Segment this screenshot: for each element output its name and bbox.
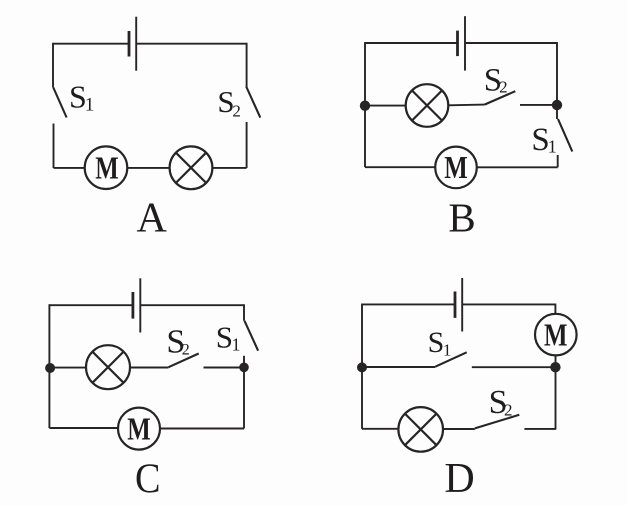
battery BT-B short plate bbox=[456, 31, 459, 56]
wire D top-right bbox=[462, 303, 555, 305]
motor M4 letter bbox=[544, 316, 568, 352]
svg-text:A: A bbox=[137, 195, 168, 241]
wire C top-left bbox=[49, 304, 132, 306]
battery BT-D long plate bbox=[461, 278, 463, 332]
switch S2 fixed contact (circuit D) bbox=[524, 428, 556, 430]
svg-text:B: B bbox=[448, 195, 475, 241]
label B bbox=[448, 195, 475, 241]
label S2 (circuit D) bbox=[489, 384, 513, 421]
wire B right vertical bbox=[556, 42, 558, 119]
svg-text:2: 2 bbox=[232, 101, 241, 120]
label D bbox=[444, 456, 474, 502]
switch S2 fixed contact (circuit C) bbox=[204, 367, 245, 369]
battery BT-A long plate bbox=[135, 17, 137, 71]
switch S1 blade (circuit B) bbox=[558, 119, 572, 152]
svg-text:M: M bbox=[544, 316, 568, 352]
wire A left lower vertical bbox=[53, 124, 55, 169]
wire C bottom-left bbox=[49, 427, 118, 429]
svg-text:1: 1 bbox=[443, 340, 452, 359]
wire A between motor and lamp bbox=[127, 167, 170, 169]
lamp L3 cross stroke 2 bbox=[92, 352, 123, 383]
wire B top-left bbox=[365, 42, 458, 44]
battery BT-C short plate bbox=[131, 292, 134, 319]
wire B left vertical bbox=[364, 42, 366, 167]
svg-text:C: C bbox=[135, 457, 161, 503]
svg-text:2: 2 bbox=[182, 341, 190, 358]
lamp L2 circle (circuit B) bbox=[406, 84, 449, 127]
svg-text:M: M bbox=[127, 410, 151, 446]
switch S1 blade (circuit C) bbox=[245, 321, 259, 351]
svg-text:M: M bbox=[444, 149, 468, 185]
wire C top-right bbox=[140, 304, 244, 306]
switch S2 fixed contact (circuit B) bbox=[520, 104, 557, 106]
lamp L4 cross stroke 1 bbox=[405, 414, 437, 446]
wire D top-left bbox=[362, 303, 455, 305]
wire C bottom-right bbox=[160, 428, 244, 430]
motor M3 circle (circuit C) bbox=[118, 408, 160, 450]
lamp L2 cross stroke 2 bbox=[412, 90, 442, 120]
battery BT-D short plate bbox=[454, 292, 457, 318]
junction dot C right bbox=[239, 363, 249, 373]
wire A bottom-left bbox=[54, 167, 85, 169]
wire A top-left bbox=[53, 43, 129, 45]
label S1 (circuit C) bbox=[216, 319, 241, 354]
switch S1 fixed contact stub (circuit C) bbox=[243, 356, 245, 364]
svg-text:2: 2 bbox=[499, 77, 508, 96]
svg-text:1: 1 bbox=[232, 335, 241, 355]
wire B bottom-right bbox=[477, 166, 558, 168]
label S2 (circuit B) bbox=[484, 62, 508, 98]
wire C right lower vertical bbox=[243, 367, 245, 428]
wire B bottom-left bbox=[365, 166, 435, 168]
battery BT-A short plate bbox=[128, 31, 131, 57]
label A bbox=[137, 195, 168, 241]
lamp L3 cross stroke 1 bbox=[92, 352, 123, 383]
svg-text:1: 1 bbox=[85, 95, 95, 116]
motor M1 circle (circuit A) bbox=[85, 146, 128, 189]
lamp L1 cross stroke 2 bbox=[176, 153, 206, 183]
switch S2 blade (circuit B) bbox=[485, 91, 516, 104]
switch S2 blade (circuit C) bbox=[169, 354, 199, 368]
svg-text:M: M bbox=[95, 150, 119, 186]
wire D bottom-left bbox=[362, 428, 398, 430]
junction dot B right bbox=[552, 100, 562, 110]
wire D middle to switch pivot bbox=[362, 366, 435, 368]
wire D right vertical below motor bbox=[555, 355, 557, 429]
junction dot D left bbox=[357, 362, 367, 372]
switch S2 blade (circuit D) bbox=[475, 415, 520, 429]
svg-text:1: 1 bbox=[548, 136, 557, 156]
motor M2 letter bbox=[444, 149, 468, 185]
switch S1 fixed contact (circuit D) bbox=[472, 366, 556, 368]
motor M3 letter bbox=[127, 410, 151, 446]
lamp L4 cross stroke 2 bbox=[405, 414, 437, 446]
label S2 (circuit C) bbox=[166, 323, 189, 360]
wire C middle-left bbox=[50, 367, 86, 369]
wire B top-right bbox=[465, 42, 557, 44]
junction dot D right bbox=[550, 362, 560, 372]
svg-text:S: S bbox=[428, 326, 445, 359]
lamp L2 cross stroke 1 bbox=[412, 90, 442, 120]
wire A bottom-right bbox=[212, 167, 246, 169]
wire C left vertical bbox=[48, 304, 50, 428]
svg-text:2: 2 bbox=[504, 400, 513, 419]
wire A left vertical bbox=[52, 43, 54, 88]
lamp L1 circle (circuit A) bbox=[170, 146, 213, 189]
switch S1 fixed contact stub (circuit B) bbox=[557, 155, 559, 167]
label S1 (circuit D) bbox=[428, 326, 452, 359]
wire B middle-left bbox=[365, 105, 406, 107]
svg-text:D: D bbox=[444, 456, 474, 502]
wire A right lower vertical bbox=[246, 122, 248, 168]
wire D left vertical bbox=[361, 304, 363, 429]
label S2 (circuit A) bbox=[217, 84, 241, 120]
label C bbox=[135, 457, 161, 503]
lamp L3 circle (circuit C) bbox=[86, 345, 130, 389]
wire A right vertical bbox=[246, 43, 248, 88]
motor M2 circle (circuit B) bbox=[435, 147, 477, 189]
junction dot B left bbox=[360, 101, 370, 111]
lamp L4 circle (circuit D) bbox=[398, 407, 443, 452]
battery BT-B long plate bbox=[464, 16, 466, 70]
lamp L1 cross stroke 1 bbox=[176, 153, 206, 183]
wire A top-right bbox=[136, 43, 246, 45]
motor M1 letter bbox=[95, 150, 119, 186]
switch S1 blade (circuit D) bbox=[435, 352, 466, 366]
switch S2 blade (circuit A) bbox=[246, 87, 260, 118]
switch S1 blade (circuit A) bbox=[53, 88, 66, 118]
wire B middle to switch pivot bbox=[448, 104, 484, 107]
label S1 (circuit A) bbox=[69, 78, 94, 115]
label S1 (circuit B) bbox=[531, 122, 556, 158]
junction dot C left bbox=[45, 363, 55, 373]
wire C middle to switch pivot bbox=[130, 367, 169, 369]
switch S1 pivot stub (circuit C) bbox=[243, 304, 245, 321]
wire D bottom to switch pivot bbox=[443, 428, 475, 430]
wire D right vertical upper stub bbox=[554, 304, 556, 315]
svg-text:S: S bbox=[216, 319, 233, 354]
motor M4 circle (circuit D) bbox=[535, 314, 577, 356]
battery BT-C long plate bbox=[139, 278, 141, 332]
